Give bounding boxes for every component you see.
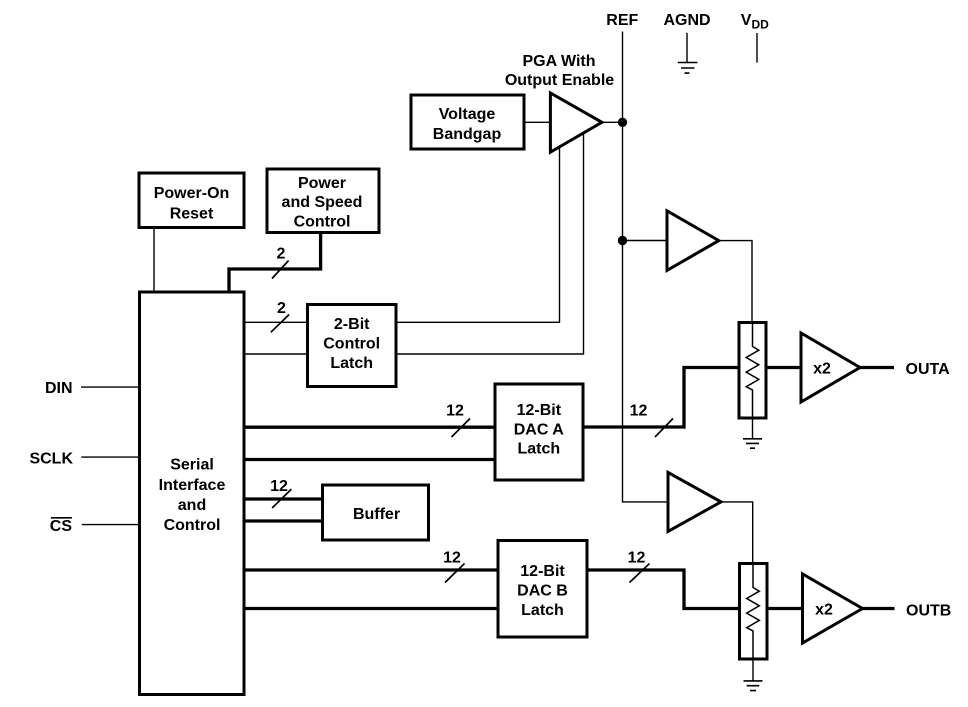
svg-text:Output Enable: Output Enable (505, 72, 614, 89)
svg-text:Control: Control (323, 336, 380, 353)
svg-text:2: 2 (277, 246, 286, 263)
svg-text:and: and (178, 497, 206, 514)
svg-text:Bandgap: Bandgap (433, 126, 502, 143)
svg-text:Latch: Latch (521, 602, 564, 619)
svg-text:12: 12 (628, 550, 646, 567)
svg-text:OUTA: OUTA (906, 361, 951, 378)
svg-text:REF: REF (606, 12, 638, 29)
svg-text:Power: Power (298, 175, 346, 192)
svg-text:Latch: Latch (517, 441, 560, 458)
svg-text:CS: CS (50, 518, 73, 535)
svg-text:SCLK: SCLK (29, 451, 73, 468)
svg-text:12: 12 (443, 550, 461, 567)
svg-text:Buffer: Buffer (353, 506, 400, 523)
svg-text:12: 12 (630, 403, 648, 420)
svg-text:12-Bit: 12-Bit (517, 402, 562, 419)
svg-text:DAC B: DAC B (517, 583, 568, 600)
svg-text:Control: Control (294, 214, 351, 231)
svg-text:12: 12 (270, 478, 288, 495)
svg-text:PGA With: PGA With (522, 53, 595, 70)
svg-text:OUTB: OUTB (906, 602, 951, 619)
svg-text:Interface: Interface (159, 477, 226, 494)
svg-text:DAC A: DAC A (514, 421, 565, 438)
svg-text:2: 2 (277, 300, 286, 317)
svg-text:12-Bit: 12-Bit (520, 563, 565, 580)
svg-text:Latch: Latch (330, 355, 373, 372)
svg-text:Reset: Reset (170, 205, 214, 222)
svg-text:Power-On: Power-On (154, 185, 230, 202)
svg-text:x2: x2 (813, 360, 831, 377)
svg-text:2-Bit: 2-Bit (334, 316, 370, 333)
svg-text:DIN: DIN (45, 380, 73, 397)
svg-text:Voltage: Voltage (439, 106, 496, 123)
svg-text:Control: Control (164, 517, 221, 534)
svg-text:and Speed: and Speed (282, 194, 363, 211)
svg-text:AGND: AGND (663, 12, 710, 29)
svg-text:Serial: Serial (170, 457, 214, 474)
svg-text:x2: x2 (815, 601, 833, 618)
svg-text:12: 12 (446, 403, 464, 420)
